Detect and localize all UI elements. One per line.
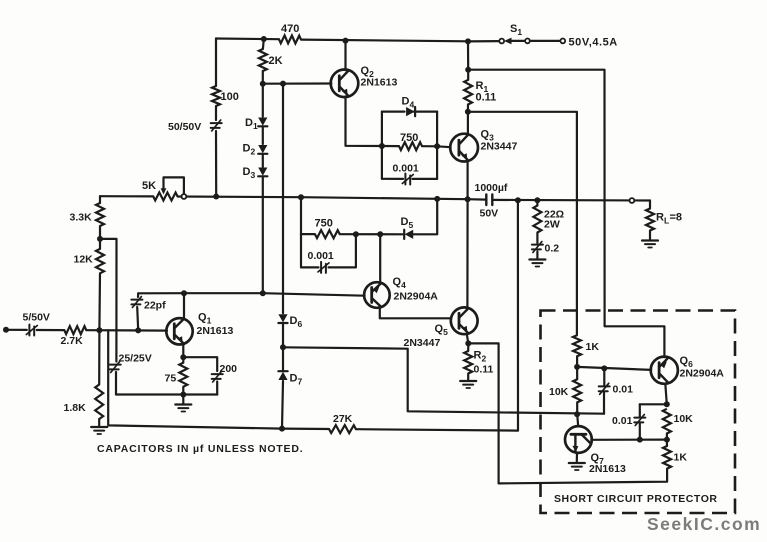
node D3 chain bottom junction [260, 290, 266, 296]
capacitor 200 [212, 371, 223, 382]
wire RL top lead [649, 201, 651, 209]
transistor Q2 2N1613 [331, 70, 359, 98]
resistor 3.3K [96, 203, 104, 226]
label 5K value [142, 180, 156, 192]
svg-text:100: 100 [221, 91, 239, 103]
label 27K value [333, 413, 353, 425]
wire Q5 emitter sense to protector [468, 343, 667, 483]
label Q2 [361, 65, 375, 79]
wire 0.01 bottom lead [603, 392, 605, 414]
wire to switch S1 [468, 40, 499, 43]
wire 0.001 lower branch [301, 234, 356, 267]
capacitor 0.01 right [634, 415, 645, 426]
label 5/50V value [23, 312, 50, 324]
node Q1 collector junction [181, 290, 187, 296]
svg-text:2W: 2W [544, 219, 560, 231]
diode D4 [406, 107, 415, 116]
label 10K lower value [674, 413, 694, 425]
wire R1 top lead [467, 70, 469, 80]
wire emitter return rail [116, 393, 217, 395]
node Q6 base junction [601, 365, 607, 371]
svg-text:75: 75 [165, 373, 177, 385]
label 22pf value [144, 300, 166, 312]
transistor Q3 2N3447 [450, 134, 478, 162]
wire 22pf top lead [137, 293, 139, 297]
wire Q2 base node to D6 [282, 84, 284, 314]
wire 200 cap bottom lead [216, 382, 218, 395]
transistor Q6 2N2904A [651, 357, 678, 384]
wire 12K bypass upper [100, 239, 117, 362]
resistor 12K [96, 249, 104, 273]
capacitor 0.001 lower [318, 262, 329, 273]
svg-text:1000µf: 1000µf [475, 182, 508, 194]
label D5 [401, 216, 414, 230]
terminal 50V supply [560, 39, 565, 44]
wire Q7 base [577, 414, 578, 426]
wire 10K upper bottom lead [576, 402, 578, 414]
svg-text:1K: 1K [674, 452, 688, 464]
resistor 5K potentiometer [153, 192, 177, 200]
svg-text:2N3447: 2N3447 [404, 337, 441, 349]
node Q5 emitter junction [465, 340, 471, 346]
label 2K value [269, 55, 283, 67]
ground R2 [460, 381, 476, 388]
wire 5/50V to 2.7K [37, 329, 65, 331]
node Q3 collector junction [465, 109, 471, 115]
svg-text:5/50V: 5/50V [23, 312, 50, 324]
svg-text:200: 200 [220, 363, 238, 375]
svg-text:SHORT CIRCUIT PROTECTOR: SHORT CIRCUIT PROTECTOR [554, 493, 718, 505]
transistor Q1 2N1613 [166, 318, 192, 344]
resistor 2.7K [64, 326, 86, 334]
capacitor 0.001 driver [402, 174, 413, 185]
svg-text:0.001: 0.001 [308, 250, 334, 262]
label Q1 type 2N1613 [197, 325, 234, 337]
wire D7 to feedback rail [282, 381, 283, 429]
wire 22pf bottom lead [137, 307, 138, 330]
node supply sense junction [465, 67, 471, 73]
watermark SeekIC.com [647, 514, 761, 534]
wire Q2 collector [344, 41, 346, 71]
wire 2K top lead [262, 39, 265, 49]
wire 3.3K to 12K junction [99, 226, 101, 239]
label 0.2 value [545, 243, 560, 255]
terminal speaker output [630, 198, 635, 203]
svg-text:2K: 2K [269, 55, 283, 67]
svg-text:CAPACITORS IN µf UNLESS NOTED.: CAPACITORS IN µf UNLESS NOTED. [97, 443, 303, 455]
wire Q2 base [263, 82, 332, 84]
svg-text:22pf: 22pf [144, 300, 166, 312]
wire Q7 emitter to ground [576, 453, 578, 462]
wire output bus middle [178, 197, 486, 200]
short circuit protector dashed box [541, 311, 736, 514]
svg-text:2N1613: 2N1613 [361, 77, 398, 89]
svg-text:0.001: 0.001 [393, 163, 419, 175]
diode D1 [258, 118, 267, 127]
svg-text:750: 750 [400, 132, 418, 144]
label 750 driver value [400, 132, 418, 144]
label Q7 [591, 452, 605, 466]
wire 100 to 50/50V cap [215, 106, 217, 120]
wire input junction to 1.8K [98, 330, 100, 384]
capacitor 1000uf plates [486, 195, 492, 206]
svg-text:SeekIC.com: SeekIC.com [647, 514, 761, 534]
node feedback junction on bus [515, 197, 521, 203]
wire Q6 base [577, 367, 651, 370]
svg-text:5K: 5K [142, 180, 156, 192]
label 22 ohm [544, 209, 564, 221]
label D3 [243, 166, 256, 180]
wire Q2 emitter to RC network [346, 96, 382, 146]
resistor 1K lower [663, 446, 671, 469]
node 1K 10K junction [574, 364, 580, 370]
ground emitter network [175, 405, 191, 412]
svg-text:2N1613: 2N1613 [197, 325, 234, 337]
node RC network left junction [379, 143, 385, 149]
diode D3 [258, 168, 267, 177]
wire Q1 collector [183, 293, 185, 319]
label 1K upper value [586, 341, 600, 353]
wire Q3 collector [467, 112, 469, 135]
node RC network right junction [434, 143, 440, 149]
label Q5 type 2N3447 [404, 337, 441, 349]
ground RL [642, 241, 658, 248]
wire output node to Q5 collector [466, 199, 468, 308]
node 0.01 Q7 collector junction [637, 437, 643, 443]
label Q2 type 2N1613 [361, 77, 398, 89]
wire lower 750 to D5 [340, 233, 403, 235]
diode D5 [404, 230, 413, 239]
svg-text:0.11: 0.11 [476, 92, 497, 104]
capacitor 50/50V [211, 120, 222, 131]
resistor 22 ohm [533, 206, 541, 233]
resistor 10K upper [573, 379, 581, 402]
node driver network junction on bus [298, 194, 304, 200]
node D7 junction on feedback rail [279, 426, 285, 432]
transistor Q7 2N1613 [565, 426, 592, 453]
svg-text:50V,4.5A: 50V,4.5A [569, 37, 618, 49]
resistor 750 lower [315, 230, 340, 238]
wire network to Q3 base [437, 145, 451, 148]
label Q3 [481, 129, 495, 143]
svg-text:750: 750 [315, 218, 333, 230]
capacitor 0.01 left [599, 383, 610, 394]
label 1000uf voltage 50V [480, 208, 499, 220]
resistor R2 [464, 351, 472, 374]
label 100 value [221, 91, 239, 103]
wire emitter return to ground [182, 395, 184, 404]
label 12K value [74, 254, 94, 266]
label 50/50V value [168, 121, 201, 133]
label 1000uf value [475, 182, 508, 194]
svg-text:2.7K: 2.7K [61, 335, 84, 347]
node top-left junction [261, 36, 267, 42]
label 0.001 lower value [308, 250, 334, 262]
wire 75 top lead [182, 357, 184, 362]
label R2 value 0.11 [474, 364, 494, 376]
wire input to 5/50V cap [6, 329, 27, 331]
node 10K bottom junction [574, 411, 580, 417]
label 2W [544, 219, 560, 231]
wire top-left corner down [215, 39, 217, 87]
wire Q4 collector to Q5 base [380, 307, 452, 318]
wire emitter junction to 200 cap [183, 357, 217, 371]
wire supply rail to Q6 emitter [468, 70, 664, 358]
diode D6 [278, 314, 287, 323]
svg-text:12K: 12K [74, 254, 94, 266]
svg-text:470: 470 [281, 23, 299, 35]
node Q4 emitter junction [377, 231, 383, 237]
svg-text:0.11: 0.11 [474, 364, 494, 376]
node Q2 collector junction [343, 38, 349, 44]
svg-text:10K: 10K [674, 413, 694, 425]
label Q4 type 2N2904A [394, 291, 439, 303]
resistor 1.8K [95, 385, 103, 420]
wire 1K to Q6 base junction [576, 356, 578, 367]
wire 50/50V cap to output bus [215, 131, 217, 197]
node zobel junction on bus [534, 197, 540, 203]
wire D2 to D3 [262, 154, 264, 167]
label 1K lower value [674, 452, 688, 464]
label D6 [290, 315, 303, 329]
node supply junction [465, 38, 471, 44]
wire Q7 collector [591, 439, 667, 441]
wire D5 to bus riser [412, 199, 437, 234]
svg-text:=8: =8 [670, 212, 683, 224]
resistor 100 [212, 86, 220, 106]
wire top supply rail [216, 39, 468, 42]
capacitor 5/50V input [26, 325, 37, 336]
wire Q1 emitter [182, 344, 184, 358]
resistor 470 [279, 35, 301, 43]
wire Q3 collector to 1K protector [468, 112, 577, 335]
svg-text:0.2: 0.2 [545, 243, 560, 255]
wire 2.7K to Q1 base [86, 329, 167, 332]
label 200 value [220, 363, 238, 375]
resistor 10K lower [663, 409, 671, 434]
wire Q1 collector rail [138, 293, 364, 296]
label 1.8K value [64, 402, 87, 414]
wire 2K to Q2 base node [262, 71, 264, 84]
wire 0.01 right top lead [639, 404, 641, 417]
svg-text:50V: 50V [480, 208, 499, 220]
wire output bus left [100, 195, 153, 197]
svg-text:0.01: 0.01 [612, 415, 633, 427]
wire Q6 collector [665, 384, 667, 405]
node 0.001 lower right junction [353, 231, 359, 237]
ground zobel [529, 260, 545, 267]
transistor Q5 2N3447 [451, 307, 478, 334]
wire 27K to speaker node [356, 200, 518, 430]
terminal 5K wiper [182, 194, 187, 199]
svg-text:50/50V: 50/50V [168, 121, 201, 133]
resistor 2K [259, 49, 267, 71]
label Q6 [680, 355, 694, 369]
wire base node down to feedback rail [108, 330, 282, 428]
node D6 branch junction on Q2 base wire [280, 81, 286, 87]
label Q4 [393, 276, 407, 290]
switch S1 [499, 38, 530, 45]
svg-text:2N2904A: 2N2904A [394, 291, 439, 303]
node 12K top junction [97, 236, 103, 242]
wire 25/25V to emitter return [115, 372, 117, 395]
label R1 [476, 80, 489, 94]
wire bus to lower network [300, 197, 302, 234]
svg-text:3.3K: 3.3K [70, 212, 93, 224]
wire D4 branch top [382, 110, 437, 112]
node Q6 collector junction [664, 401, 670, 407]
svg-text:0.01: 0.01 [613, 384, 634, 396]
wire 10K lower bottom lead [666, 434, 668, 440]
wire RL bottom lead [649, 231, 651, 241]
wire 0.01 right bottom lead [639, 424, 641, 440]
label 750 lower value [315, 218, 333, 230]
wire 750 leads [382, 145, 437, 148]
transistor Q4 2N2904A [364, 282, 390, 308]
terminal input [3, 327, 9, 333]
label 3.3K value [70, 212, 93, 224]
wire Q6 collector to 0.01 right [640, 403, 667, 405]
wire 12K top lead [99, 239, 101, 249]
capacitor 22pf [131, 297, 142, 308]
wire output bus right [492, 199, 650, 202]
wire supply to R1 [467, 41, 469, 69]
svg-text:1K: 1K [586, 341, 600, 353]
diode D2 [258, 145, 267, 154]
wire R2 top lead [467, 343, 469, 351]
wire Q3 emitter to output node [467, 161, 469, 199]
wire Q5 emitter [467, 334, 469, 343]
wire D6-D7 node to protector [283, 347, 604, 413]
resistor 1K upper [573, 335, 581, 356]
label 25/25V value [119, 353, 152, 365]
resistor 27K [329, 425, 356, 433]
wire 5K wiper loop [161, 177, 184, 194]
wire R2 to ground [467, 374, 469, 381]
wire 1.8K to ground [98, 419, 100, 426]
label 50V,4.5A [569, 37, 618, 49]
node Q2 base junction [260, 81, 266, 87]
wire D3 to Q1 collector rail [262, 177, 264, 294]
resistor R1 [464, 80, 472, 105]
capacitor 0.2 [532, 242, 543, 253]
svg-text:10K: 10K [549, 386, 569, 398]
label RL=8 [656, 212, 682, 226]
node Q1 emitter junction [180, 354, 186, 360]
wire D1 to D2 [262, 127, 264, 145]
wire RC network right vertical [436, 112, 438, 179]
label 0.01 right value [612, 415, 633, 427]
node bootstrap junction on bus [213, 194, 219, 200]
label Q7 type 2N1613 [589, 463, 626, 475]
node D6-D7 junction [280, 344, 286, 350]
wire R1 bottom lead [467, 105, 469, 112]
svg-text:25/25V: 25/25V [119, 353, 152, 365]
node output junction [465, 196, 471, 202]
wire 0.001 branch bottom [382, 178, 437, 180]
svg-text:27K: 27K [333, 413, 353, 425]
ground 1.8K [91, 427, 107, 434]
label 10K upper value [549, 386, 569, 398]
label Q5 [435, 323, 449, 337]
wire feedback rail to 27K [282, 428, 329, 431]
label 2.7K value [61, 335, 84, 347]
svg-text:2N3447: 2N3447 [481, 141, 518, 153]
node 10K 1K junction [664, 437, 670, 443]
wire lower 750 left lead [301, 233, 315, 235]
wire D7 top lead [282, 347, 284, 371]
wire switch to supply terminal [530, 40, 561, 42]
svg-text:2N1613: 2N1613 [589, 463, 626, 475]
node input junction [96, 327, 102, 333]
note capacitors in uf unless noted [97, 443, 303, 455]
node emitter return junction [180, 392, 186, 398]
wire Q4 emitter [379, 234, 381, 283]
wire 22ohm to 0.2 cap [536, 233, 538, 244]
resistor RL load [646, 209, 654, 231]
label Q6 type 2N2904A [680, 368, 725, 380]
wire Q2 base node to D1 [262, 84, 264, 117]
wire 75 bottom lead [182, 387, 184, 395]
capacitor 25/25V [110, 362, 121, 373]
wire 0.01 top lead [603, 368, 605, 385]
node 22pf junction on base wire [135, 327, 141, 333]
wire RC network left vertical [381, 112, 383, 179]
label R1 value 0.11 [476, 92, 497, 104]
label R2 [474, 350, 487, 364]
label Q3 type 2N3447 [481, 141, 518, 153]
svg-text:1.8K: 1.8K [64, 402, 87, 414]
label S1 [510, 23, 522, 37]
label D7 [290, 373, 303, 387]
wire 0.2 to ground [536, 252, 538, 259]
label 0.001 driver value [393, 163, 419, 175]
wire 22ohm top lead [536, 200, 538, 205]
label 0.01 left value [613, 384, 634, 396]
wire 12K to input junction [98, 273, 101, 330]
wire D6 to protector junction [282, 323, 284, 347]
resistor 75 [179, 363, 187, 387]
diode D7 [278, 371, 287, 380]
node D5 junction on bus [434, 196, 440, 202]
wire 1K lower top lead [666, 440, 668, 446]
wire bus corner to 3.3K [99, 196, 101, 203]
label SHORT CIRCUIT PROTECTOR [554, 493, 718, 505]
ground Q7 [569, 463, 585, 470]
wire 10K upper top lead [576, 367, 578, 379]
label 75 value [165, 373, 177, 385]
svg-text:2N2904A: 2N2904A [680, 368, 725, 380]
label Q1 [198, 312, 212, 326]
resistor 750 driver [399, 142, 422, 150]
label D2 [243, 143, 256, 157]
label D4 [402, 96, 415, 110]
label D1 [245, 117, 258, 131]
label 470 value [281, 23, 299, 35]
